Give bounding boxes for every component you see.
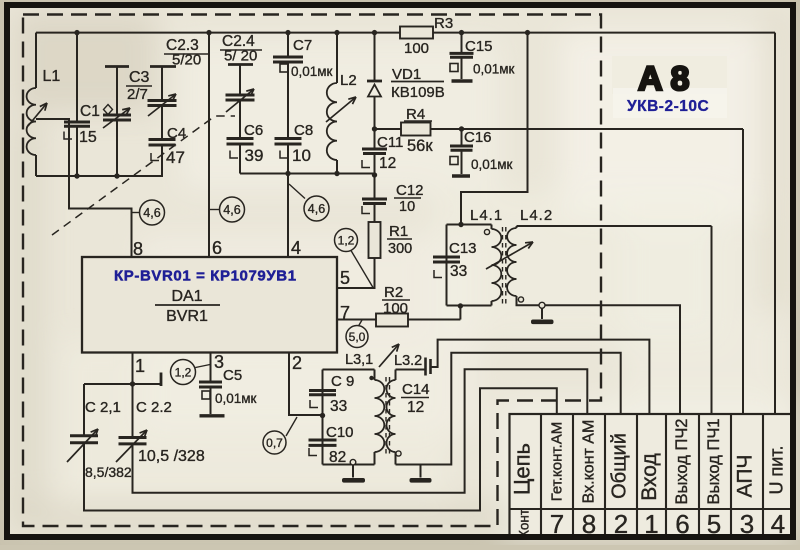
svg-text:L3.2: L3.2 <box>394 353 422 369</box>
svg-text:R1: R1 <box>389 223 408 240</box>
svg-text:DA1: DA1 <box>171 288 202 305</box>
svg-text:C13: C13 <box>449 240 477 257</box>
svg-text:Общий: Общий <box>609 433 631 499</box>
svg-text:L4.1: L4.1 <box>470 207 503 224</box>
svg-text:C1: C1 <box>80 103 100 120</box>
svg-text:5: 5 <box>340 268 350 288</box>
svg-text:47: 47 <box>166 148 185 167</box>
svg-text:C5: C5 <box>223 367 242 384</box>
svg-text:C10: C10 <box>326 424 354 441</box>
svg-text:BVR1: BVR1 <box>166 308 208 325</box>
svg-text:4: 4 <box>291 238 301 258</box>
svg-text:R2: R2 <box>384 284 403 301</box>
svg-text:39: 39 <box>245 146 264 165</box>
svg-text:C 9: C 9 <box>331 373 354 390</box>
svg-text:0,01мк: 0,01мк <box>471 157 513 172</box>
svg-text:8,5/382: 8,5/382 <box>85 464 132 480</box>
svg-text:C 2,1: C 2,1 <box>85 399 121 416</box>
svg-text:5/ 20: 5/ 20 <box>224 48 257 65</box>
svg-text:C4: C4 <box>167 125 186 142</box>
svg-text:L2: L2 <box>340 72 357 89</box>
svg-text:0,01мк: 0,01мк <box>291 64 333 79</box>
svg-text:C7: C7 <box>293 37 312 54</box>
svg-text:15: 15 <box>79 129 97 146</box>
svg-text:4,6: 4,6 <box>308 202 325 216</box>
svg-text:10: 10 <box>399 199 415 215</box>
svg-text:А8: А8 <box>638 60 697 98</box>
svg-text:33: 33 <box>450 263 467 280</box>
svg-text:C3: C3 <box>129 69 150 86</box>
svg-text:33: 33 <box>330 398 347 415</box>
svg-text:1: 1 <box>135 356 145 376</box>
svg-text:82: 82 <box>329 449 346 466</box>
svg-text:0,7: 0,7 <box>266 436 283 450</box>
svg-text:2: 2 <box>292 353 302 373</box>
svg-text:100: 100 <box>383 300 408 317</box>
svg-text:56к: 56к <box>407 137 433 155</box>
svg-text:10,5 /328: 10,5 /328 <box>138 448 205 465</box>
svg-text:КР-BVR01 = КР1079УВ1: КР-BVR01 = КР1079УВ1 <box>114 268 297 285</box>
svg-text:12: 12 <box>379 155 396 172</box>
svg-text:R3: R3 <box>434 15 453 32</box>
svg-text:C14: C14 <box>402 381 430 398</box>
svg-text:Выход ПЧ2: Выход ПЧ2 <box>673 419 691 505</box>
svg-text:5,0: 5,0 <box>349 330 366 344</box>
svg-text:C6: C6 <box>244 122 263 139</box>
svg-text:C8: C8 <box>294 122 313 139</box>
svg-text:L4.2: L4.2 <box>520 207 553 224</box>
svg-text:L3,1: L3,1 <box>345 352 373 368</box>
svg-text:5/20: 5/20 <box>172 52 201 69</box>
svg-text:Конт: Конт <box>517 509 532 538</box>
svg-text:4,6: 4,6 <box>143 206 160 220</box>
svg-text:0,01мк: 0,01мк <box>215 391 257 406</box>
svg-text:12: 12 <box>407 399 424 416</box>
svg-text:C 2.2: C 2.2 <box>136 399 172 416</box>
svg-text:2/7: 2/7 <box>127 86 148 103</box>
svg-text:Гет.конт.АМ: Гет.конт.АМ <box>549 422 566 502</box>
svg-text:1,2: 1,2 <box>175 365 192 379</box>
svg-text:Выход ПЧ1: Выход ПЧ1 <box>705 419 723 505</box>
svg-text:КВ109В: КВ109В <box>391 84 445 101</box>
svg-text:C15: C15 <box>465 38 493 55</box>
svg-text:8: 8 <box>133 239 143 259</box>
svg-text:VD1: VD1 <box>392 66 421 83</box>
svg-text:УКВ-2-10С: УКВ-2-10С <box>627 98 709 115</box>
svg-text:6: 6 <box>212 238 222 258</box>
svg-text:Вход: Вход <box>638 453 661 501</box>
svg-text:C11: C11 <box>377 134 403 151</box>
svg-text:0,01мк: 0,01мк <box>473 62 515 77</box>
svg-text:1,2: 1,2 <box>338 233 355 247</box>
svg-text:100: 100 <box>404 40 429 57</box>
svg-text:C16: C16 <box>464 129 492 146</box>
svg-text:Вх.конт АМ: Вх.конт АМ <box>581 420 598 504</box>
svg-text:Цепь: Цепь <box>510 443 535 495</box>
svg-text:U пит.: U пит. <box>767 445 787 494</box>
svg-text:C12: C12 <box>396 182 424 199</box>
svg-text:АПЧ: АПЧ <box>734 455 757 498</box>
svg-text:10: 10 <box>292 146 311 165</box>
svg-text:L1: L1 <box>43 68 61 85</box>
svg-text:4,6: 4,6 <box>223 203 240 217</box>
svg-text:300: 300 <box>388 241 412 257</box>
svg-text:7: 7 <box>340 303 350 323</box>
